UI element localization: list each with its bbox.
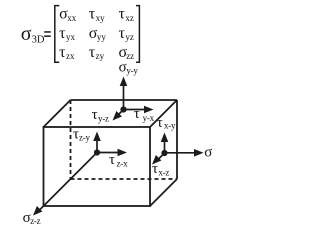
label tau_y-z [92,107,109,123]
svg-text:σ: σ [21,23,32,45]
cube back right vertical edge [176,100,178,179]
svg-text:τ: τ [92,107,98,123]
arrow tau_x-y [161,133,169,154]
svg-text:yx: yx [66,32,76,42]
svg-text:xz: xz [125,13,133,23]
arrow sigma (x normal) [165,149,204,157]
matrix entry tau_zy [89,44,105,61]
cube hidden back bottom edge (dashed) [71,178,178,180]
svg-text:xy: xy [96,13,106,23]
svg-text:y-y: y-y [126,66,138,76]
svg-text:3D: 3D [32,35,45,46]
svg-text:y-x: y-x [143,113,155,123]
node dot on top face [120,106,126,112]
matrix entry tau_xz [119,5,134,23]
svg-text:xx: xx [67,13,77,23]
svg-text:τ: τ [152,161,158,177]
svg-text:zx: zx [66,51,75,61]
cube front face [44,127,151,206]
svg-text:τ: τ [109,152,115,168]
svg-text:zz: zz [126,51,134,61]
matrix entry tau_yz [119,25,134,42]
node dot on front face [94,149,100,155]
matrix entry tau_xy [89,5,105,23]
cube back top edge [71,99,178,101]
svg-text:τ: τ [157,115,163,131]
label tau_x-z [152,161,169,178]
matrix entry sigma_xx [59,5,77,23]
matrix left bracket [55,6,60,63]
svg-text:z-z: z-z [30,216,40,226]
label sigma_y-y [119,59,139,75]
matrix entry sigma_zz [119,44,135,61]
label sigma_z-z [23,210,41,226]
cube hidden back-left vertical edge (dashed) [70,100,72,179]
matrix label sigma_3D [21,23,45,46]
matrix entry tau_yx [59,25,75,42]
arrow tau_z-x [97,149,127,157]
matrix entry tau_zx [59,44,75,61]
svg-text:yz: yz [125,32,133,42]
cube top-right depth edge [150,100,177,127]
svg-text:y-z: y-z [98,113,109,123]
equals sign [44,31,51,37]
label tau_y-x [134,106,155,123]
svg-text:x-y: x-y [164,121,176,131]
label tau_x-y [157,115,176,131]
label tau_z-y [73,127,90,143]
arrow tau_y-x [124,106,154,114]
svg-text:σ: σ [204,145,212,161]
label tau_z-x [109,152,128,168]
node dot on right face [161,150,167,156]
svg-text:zy: zy [96,51,105,61]
arrow sigma_z-z [33,153,97,216]
svg-text:yy: yy [97,32,107,42]
cube bottom-right depth edge [150,179,177,206]
svg-text:z-y: z-y [79,133,90,143]
arrow tau_x-z [152,153,165,165]
matrix right bracket [136,6,139,63]
svg-text:x-z: x-z [158,167,169,177]
arrow tau_y-z [113,110,124,121]
svg-text:τ: τ [134,106,140,122]
arrow sigma_y-y [120,77,128,110]
svg-text:z-x: z-x [117,158,128,168]
arrow tau_z-y [93,132,101,153]
cube top-left depth edge [44,100,71,127]
matrix entry sigma_yy [89,25,107,42]
